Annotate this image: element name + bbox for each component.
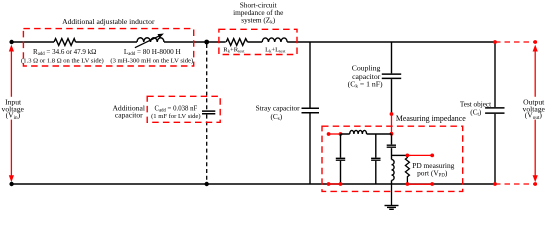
label Test object (Ct) bbox=[460, 100, 491, 117]
wire measuring middle capacitor branch bbox=[375, 134, 377, 184]
wire measuring left capacitor branch bbox=[340, 134, 342, 184]
capacitor measuring right bbox=[387, 145, 396, 147]
node PD port bottom (red) bbox=[430, 182, 434, 186]
capacitor measuring middle bbox=[371, 158, 380, 160]
label Coupling capacitor (Ck = 1 nF) bbox=[348, 64, 383, 90]
box Measuring impedance bbox=[322, 126, 463, 191]
node input top bbox=[9, 40, 13, 44]
svg-text:(Cs): (Cs) bbox=[270, 112, 282, 122]
inductor Ladd (adjustable) bbox=[137, 38, 164, 42]
svg-text:capacitor: capacitor bbox=[115, 110, 143, 119]
wire PD port top (red) bbox=[407, 154, 432, 156]
resistor Radd bbox=[54, 39, 76, 46]
box Additional adjustable inductor bbox=[23, 29, 193, 66]
wire measuring right branch upper bbox=[391, 134, 393, 160]
box Additional capacitor bbox=[147, 96, 220, 122]
wire test object branch bbox=[494, 42, 496, 184]
node measuring input (red) on coupling branch bbox=[390, 112, 394, 116]
svg-text:(1.3 Ω or 1.8 Ω on the LV side: (1.3 Ω or 1.8 Ω on the LV side) bbox=[21, 58, 104, 65]
node PD port top (red) bbox=[430, 154, 434, 158]
capacitor Cs bbox=[302, 108, 320, 113]
label Input voltage (Vin) bbox=[2, 98, 25, 121]
svg-text:(Vin): (Vin) bbox=[6, 111, 21, 121]
wire coupling capacitor branch bbox=[391, 42, 393, 114]
wire stray capacitor branch bbox=[309, 42, 311, 184]
capacitor Ct bbox=[485, 108, 504, 113]
label Stray capacitor (Cs) bbox=[256, 104, 301, 122]
ground bbox=[385, 184, 399, 209]
svg-text:system (Zk): system (Zk) bbox=[241, 15, 275, 25]
inductor measuring right (vertical) bbox=[392, 160, 395, 181]
node measuring box top junction (red) bbox=[390, 132, 394, 136]
svg-text:Radd = 34.6 or 47.9 kΩ: Radd = 34.6 or 47.9 kΩ bbox=[33, 48, 96, 57]
wire output bottom dashed (red) bbox=[495, 183, 535, 185]
node terminal M4 (red) bbox=[339, 182, 343, 186]
wire bottom rail bbox=[12, 183, 495, 185]
wire red segment M3 bbox=[329, 183, 341, 185]
node output top left (red) bbox=[493, 40, 497, 44]
label Output voltage (Vout) bbox=[523, 98, 546, 121]
svg-text:(3 mH-300 mH on the LV side): (3 mH-300 mH on the LV side) bbox=[110, 58, 193, 65]
svg-text:Lk+Ltest: Lk+Ltest bbox=[265, 47, 286, 54]
svg-text:Additional adjustable inductor: Additional adjustable inductor bbox=[62, 17, 155, 26]
node terminal M1 (red) bbox=[327, 132, 331, 136]
node terminal M3 (red) bbox=[327, 182, 331, 186]
node PD ground terminal left (red) bbox=[406, 182, 410, 186]
svg-text:(Ct): (Ct) bbox=[470, 108, 482, 117]
wire red segment M1 bbox=[329, 133, 341, 135]
node input bottom bbox=[9, 182, 13, 186]
wire PD port bottom (red) bbox=[407, 183, 432, 185]
svg-text:Rk+Rtest: Rk+Rtest bbox=[223, 47, 245, 54]
wire measuring box top bbox=[341, 133, 392, 135]
node junction B (bottom of Cadd branch) bbox=[205, 182, 209, 186]
node output bottom left (red) bbox=[493, 182, 497, 186]
input voltage arrow Vin bbox=[9, 45, 14, 183]
svg-text:Ladd = 80 H-8000 H: Ladd = 80 H-8000 H bbox=[124, 48, 181, 57]
node PD junction (red) bbox=[406, 154, 410, 158]
resistor PD branch (vertical) bbox=[405, 155, 409, 184]
node junction A (top of Cadd branch) bbox=[204, 40, 209, 45]
box Short-circuit impedance bbox=[219, 29, 297, 54]
wire Cadd branch (dashed) bbox=[206, 44, 208, 184]
label PD measuring port (VPD) bbox=[412, 161, 454, 178]
node output top right (red) bbox=[533, 40, 537, 44]
svg-text:(Ck = 1 nF): (Ck = 1 nF) bbox=[348, 80, 383, 90]
capacitor Ck bbox=[382, 74, 401, 78]
wire top rail bbox=[12, 41, 495, 43]
label Additional capacitor bbox=[112, 104, 144, 120]
arrow of adjustable inductor Ladd bbox=[135, 34, 164, 48]
label Short-circuit impedance of the system (Zk) bbox=[233, 1, 283, 26]
inductor Lk+Ltest bbox=[262, 38, 287, 42]
wire output top dashed (red) bbox=[495, 41, 535, 43]
svg-text:(1 mF for LV side): (1 mF for LV side) bbox=[151, 113, 200, 120]
wire PD junction row bbox=[392, 154, 408, 156]
wire red segment coupling to measuring box bbox=[391, 114, 393, 134]
svg-text:Test object: Test object bbox=[460, 100, 491, 108]
inductor measuring box (horizontal) bbox=[350, 130, 367, 134]
wire measuring right branch lower bbox=[391, 180, 393, 184]
output voltage arrow Vout bbox=[533, 45, 538, 183]
svg-text:Stray capacitor: Stray capacitor bbox=[256, 104, 301, 113]
svg-text:Measuring impedance: Measuring impedance bbox=[396, 114, 466, 123]
resistor Rk+Rtest bbox=[226, 39, 247, 46]
node terminal M2 (red) bbox=[339, 132, 343, 136]
capacitor Cadd bbox=[202, 111, 215, 114]
capacitor measuring left bbox=[336, 158, 345, 160]
node output bottom right (red) bbox=[533, 182, 537, 186]
